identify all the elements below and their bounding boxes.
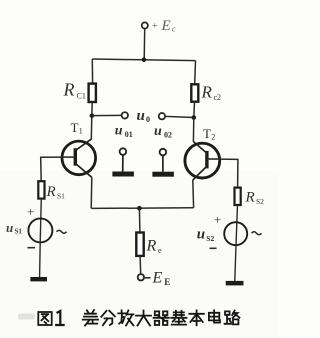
wire node to uo left terminal [92, 114, 122, 116]
transistor T1 [62, 120, 96, 178]
wire Rs2 to source us2 [236, 205, 238, 245]
label uo [137, 108, 151, 124]
resistor RS2 [235, 188, 265, 206]
terminal uo right [159, 113, 165, 119]
wire Rs1 to source us1 [40, 199, 41, 243]
resistor RS1 [38, 181, 65, 200]
svg-text:T: T [71, 120, 79, 135]
char 1 [56, 311, 63, 325]
svg-text:c2: c2 [214, 93, 222, 102]
char lu [225, 311, 240, 325]
wire node down to T2 [192, 118, 194, 142]
char qi [154, 311, 169, 325]
svg-text:u: u [197, 227, 205, 243]
label u01 [115, 124, 133, 140]
wire Re to EE terminal [139, 256, 142, 274]
svg-text:u: u [154, 124, 162, 139]
wire collector node down to T1 [90, 116, 93, 140]
ground us1 [30, 277, 47, 281]
wire top rail [92, 59, 195, 61]
terminal +Ec [142, 18, 176, 34]
terminal uo left [122, 112, 128, 118]
wire Rc2 to collector node T2 [193, 102, 196, 118]
svg-text:01: 01 [125, 130, 133, 139]
source us1 [6, 218, 67, 242]
wire T2 emitter down [192, 180, 195, 208]
char ji [171, 311, 186, 325]
watermark smudge [18, 314, 35, 320]
svg-text:C1: C1 [77, 92, 86, 101]
label - us2 [210, 247, 217, 249]
wire bottom rail [91, 207, 193, 210]
svg-text:u: u [137, 108, 145, 124]
svg-text:E: E [152, 270, 163, 287]
svg-text:R: R [146, 238, 157, 255]
svg-text:E: E [164, 277, 170, 287]
svg-text:E: E [161, 18, 171, 34]
char fen [101, 311, 115, 325]
char tu [38, 312, 51, 325]
char cha [83, 310, 98, 326]
svg-text:0: 0 [146, 115, 150, 124]
wire uo right terminal to collector node T2 [165, 116, 194, 117]
svg-text:e: e [158, 246, 162, 255]
char dian [209, 310, 220, 322]
wire top rail to Rc2 [194, 61, 197, 85]
resistor Re [136, 233, 162, 256]
terminal -EE [138, 270, 171, 288]
svg-text:S1: S1 [15, 228, 23, 236]
svg-text:R: R [201, 83, 213, 102]
wire junction to Re [138, 208, 141, 232]
node collector T1 [90, 113, 95, 118]
svg-text:S2: S2 [256, 197, 264, 206]
label u02 [154, 124, 172, 140]
wire T2 base right and down [220, 159, 238, 188]
svg-text:1: 1 [79, 127, 83, 136]
char fang [118, 310, 133, 325]
wire T1 emitter down [90, 177, 93, 208]
svg-text:T: T [203, 126, 211, 141]
svg-text:S1: S1 [57, 191, 65, 200]
wire Ec terminal to top rail [143, 29, 146, 60]
wire us2 to ground [235, 245, 236, 281]
svg-text:+: + [214, 212, 221, 227]
svg-text:c: c [172, 25, 176, 34]
source us2 [197, 222, 262, 245]
wire us1 to ground [39, 242, 42, 277]
node junction top center [142, 57, 147, 62]
resistor RC2 [191, 83, 221, 103]
node emitter junction [137, 206, 142, 211]
svg-text:u: u [115, 124, 123, 139]
transistor T2 [185, 126, 220, 180]
caption 图1 差分放大器基本电路 [18, 310, 239, 326]
svg-text:u: u [6, 220, 13, 235]
svg-text:2: 2 [211, 133, 215, 142]
svg-text:R: R [245, 190, 255, 206]
svg-text:+: + [152, 21, 158, 32]
char da [136, 311, 151, 326]
terminal u01 with ground [112, 148, 133, 176]
svg-text:02: 02 [164, 131, 172, 140]
svg-text:R: R [63, 80, 75, 100]
svg-text:+: + [27, 204, 34, 219]
wire Rc1 to collector node [91, 102, 93, 116]
wire top rail to Rc1 [91, 59, 93, 84]
char ben [189, 310, 203, 325]
wire T1 base left and down [41, 157, 63, 181]
node collector T2 [192, 115, 197, 120]
svg-text:R: R [46, 184, 56, 200]
label - us1 [28, 247, 36, 249]
svg-text:S2: S2 [206, 234, 214, 243]
ground us2 [226, 281, 244, 286]
resistor RC1 [63, 80, 96, 103]
terminal u02 with ground [152, 149, 174, 177]
